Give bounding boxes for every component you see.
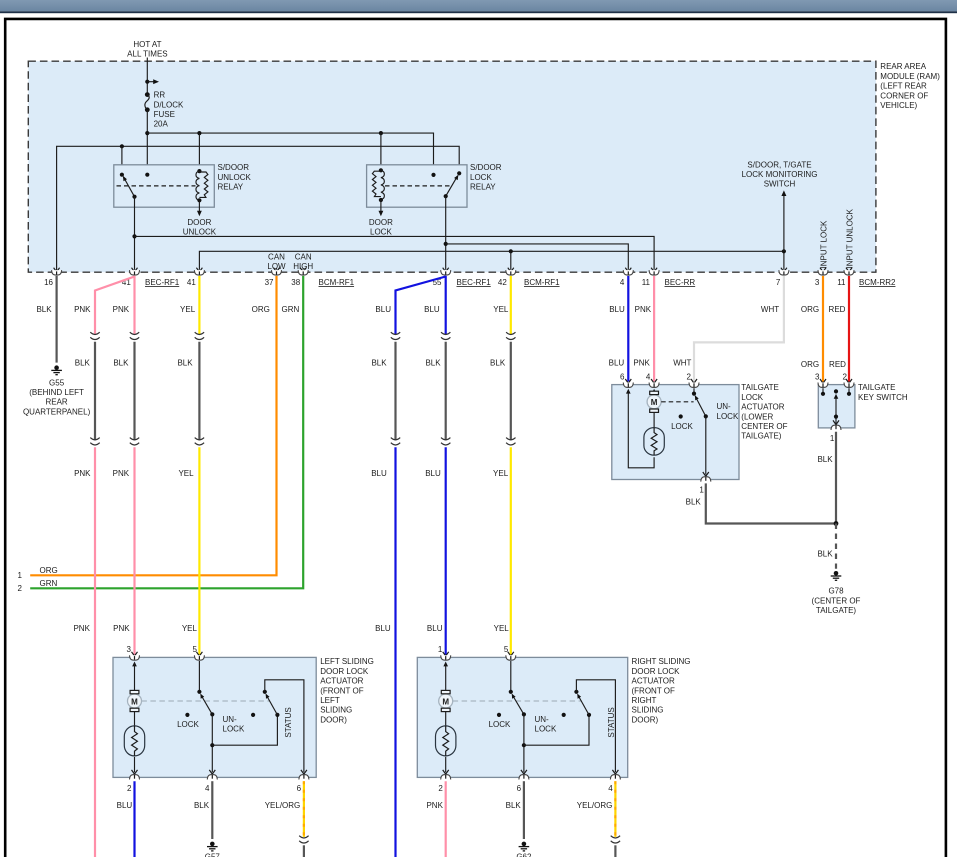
svg-text:41: 41 (187, 278, 196, 287)
wire: motor to sensor oval (653, 412, 655, 428)
svg-text:YEL: YEL (180, 305, 196, 314)
svg-text:G78: G78 (828, 587, 844, 596)
svg-text:2: 2 (438, 784, 443, 793)
pin number labels on connector row (44, 278, 846, 287)
right actuator top pin cups (441, 655, 516, 660)
svg-text:4: 4 (620, 278, 625, 287)
wire: PNK left long run to page bottom (94, 447, 96, 857)
svg-text:HIGH: HIGH (293, 262, 313, 271)
wire: BLK below left inline connector (303, 845, 305, 857)
svg-text:LOCK: LOCK (741, 393, 763, 402)
header bar (0, 0, 957, 13)
key switch pin labels 3 2 (815, 373, 848, 382)
ground G62 (519, 842, 530, 851)
svg-text:SLIDING: SLIDING (632, 706, 664, 715)
inline connector on right YEL/ORG (611, 836, 620, 843)
svg-text:3: 3 (815, 278, 820, 287)
key switch pin cups (818, 383, 854, 388)
motor M right actuator (439, 690, 453, 711)
fuse RR D/LOCK FUSE 20A (145, 91, 184, 129)
left actuator top pin cups (130, 655, 205, 660)
label: REAR AREA MODULE (RAM) (LEFT REAR CORNER OF VEHICLE) (880, 62, 940, 110)
svg-text:(CENTER OF: (CENTER OF (812, 596, 861, 605)
svg-text:WHT: WHT (761, 305, 779, 314)
left sliding door lock actuator box (113, 657, 316, 777)
svg-text:4: 4 (205, 784, 210, 793)
wire: YEL/ORG from left pin 6 (303, 781, 305, 837)
inline connector on left YEL/ORG (299, 836, 308, 843)
wire: BLU to right actuator pin 1 (445, 447, 447, 655)
svg-text:37: 37 (265, 278, 274, 287)
bottom wire color labels (right actuator) (426, 801, 612, 810)
connector name labels (145, 278, 896, 287)
relay U1 coil with parallel resistor (196, 169, 208, 202)
node: right STATUS pivot (574, 690, 578, 694)
svg-text:INPUT UNLOCK: INPUT UNLOCK (845, 208, 854, 268)
wire: right sensor to pin 2 (443, 757, 449, 774)
label: G55 (BEHIND LEFT REAR QUARTERPANEL) (23, 378, 91, 416)
wire: YEL to right actuator pin 5 (510, 447, 512, 655)
right sliding door lock actuator box (417, 657, 627, 777)
wire: tailgate switch output to pin 1 (703, 416, 709, 476)
svg-text:2: 2 (687, 373, 692, 382)
wire: tailgate BLK to junction (706, 483, 836, 523)
wire: tailgate pin 6 internal to sensor resistor (626, 389, 654, 468)
label: CAN LOW (267, 252, 286, 271)
svg-text:BLK: BLK (686, 497, 702, 506)
arrows into right actuator top pins (443, 652, 514, 656)
label: S/DOOR, T/GATE LOCK MONITORING SWITCH (742, 160, 818, 188)
arrows into tailgate pins (625, 379, 697, 383)
wire: INPUT LOCK stub (820, 268, 826, 272)
label: DOOR LOCK (369, 218, 393, 237)
tailgate pin cups (623, 383, 699, 388)
connector cups on RAM bottom edge (52, 270, 854, 275)
node: monitoring switch branch (782, 249, 786, 253)
wire: RED pin 11 run to key switch (848, 276, 850, 382)
svg-text:ACTUATOR: ACTUATOR (741, 403, 784, 412)
wire stubs through connector cups (57, 271, 849, 778)
wire: PNK pin 41 diagonal branch to left run (95, 277, 135, 335)
wire: ORG pin 37 CAN LOW run to left edge (30, 276, 276, 575)
node: right LOCK contact (497, 713, 501, 717)
wire: left actuator pin 3 internal to motor (132, 662, 137, 691)
right actuator bottom pin labels 2 6 4 (438, 784, 613, 793)
wire color labels at actuator pins (73, 624, 509, 633)
motor M left actuator (128, 690, 142, 711)
wire: PNK pin 41 straight run (133, 276, 135, 335)
label: G78 (CENTER OF TAILGATE) (812, 587, 861, 615)
svg-text:LOW: LOW (267, 262, 286, 271)
svg-text:BLU: BLU (371, 469, 387, 478)
node: left STATUS pivot (263, 690, 267, 694)
svg-text:ORG: ORG (801, 360, 819, 369)
svg-text:1: 1 (438, 645, 443, 654)
svg-text:LOCK: LOCK (717, 412, 739, 421)
svg-text:DOOR): DOOR) (320, 715, 347, 724)
svg-text:UNLOCK: UNLOCK (218, 173, 252, 182)
svg-text:UN-: UN- (535, 715, 550, 724)
right lock/unlock switch arm (512, 694, 526, 717)
svg-text:CAN: CAN (268, 252, 285, 261)
wire: pin 41 YEL net across to pin 7 (199, 251, 784, 269)
svg-text:CAN: CAN (295, 252, 312, 261)
svg-text:BLK: BLK (75, 358, 91, 367)
svg-text:CENTER OF: CENTER OF (741, 422, 787, 431)
motor M tailgate (647, 391, 661, 412)
relay U2 mechanical dashed link (385, 185, 452, 187)
wire: relay U2 output across to pin 4 (446, 244, 629, 270)
svg-text:BLK: BLK (817, 549, 833, 558)
svg-text:1: 1 (18, 571, 23, 580)
svg-text:ACTUATOR: ACTUATOR (320, 677, 363, 686)
svg-text:PNK: PNK (113, 624, 130, 633)
svg-text:BEC-RR: BEC-RR (665, 278, 696, 287)
svg-text:ORG: ORG (252, 305, 270, 314)
svg-text:BLK: BLK (194, 801, 210, 810)
svg-text:YEL: YEL (182, 624, 198, 633)
svg-text:HOT AT: HOT AT (133, 40, 161, 49)
svg-text:VEHICLE): VEHICLE) (880, 101, 917, 110)
node: relay U2 coil tap (379, 131, 383, 135)
node: left LOCK contact (185, 713, 189, 717)
wire: CAN LOW stub (274, 268, 280, 272)
wire: BLK from right pin 6 to ground G62 (523, 781, 525, 839)
wire: relay U1 output across to pin 11 (135, 236, 655, 269)
wire: relay U2 coil to DOOR LOCK arrow (380, 200, 382, 212)
svg-text:20A: 20A (154, 120, 169, 129)
svg-text:BLU: BLU (609, 305, 625, 314)
wire: BLK mid segments (95, 342, 511, 440)
tailgate mechanical dashed link (661, 401, 693, 403)
right STATUS switch arm (577, 694, 589, 715)
svg-text:S/DOOR: S/DOOR (218, 163, 250, 172)
node: relay U1 pivot tap (120, 144, 124, 148)
svg-text:REAR AREA: REAR AREA (880, 62, 926, 71)
svg-text:YEL: YEL (178, 469, 194, 478)
wire: INPUT UNLOCK stub (846, 268, 852, 272)
svg-text:11: 11 (642, 278, 651, 287)
wire: relay U1 output down to pin 41 (134, 197, 136, 270)
svg-text:MODULE (RAM): MODULE (RAM) (880, 72, 940, 81)
svg-text:CORNER OF: CORNER OF (880, 91, 928, 100)
wire: right actuator pin 5 internal to switch pivot (510, 661, 512, 692)
svg-text:7: 7 (776, 278, 781, 287)
right actuator mechanical dashed link (453, 700, 582, 702)
svg-text:6: 6 (297, 784, 302, 793)
label: DOOR UNLOCK (183, 218, 217, 237)
relay U1 contacts (120, 173, 124, 177)
svg-text:BLK: BLK (425, 358, 441, 367)
wire: dashed BLK to ground G78 (835, 524, 837, 569)
svg-text:BLU: BLU (427, 624, 443, 633)
left actuator top pin labels 3 5 (127, 645, 198, 654)
key switch pin 1 cup (bottom) (831, 425, 841, 430)
svg-text:GRN: GRN (282, 305, 300, 314)
svg-text:DOOR LOCK: DOOR LOCK (632, 667, 681, 676)
svg-text:PNK: PNK (113, 469, 130, 478)
node: relay U2 output branch (444, 242, 448, 246)
relay U1 mechanical dashed link (117, 185, 196, 187)
node: left status arm end (275, 713, 279, 717)
wire: motor to sensor oval (left) (134, 711, 136, 726)
tailgate switch arm (695, 395, 708, 418)
svg-text:LEFT SLIDING: LEFT SLIDING (320, 657, 374, 666)
svg-text:UNLOCK: UNLOCK (183, 228, 217, 237)
label: TAILGATE LOCK ACTUATOR (LOWER CENTER OF TAILGATE) (741, 383, 787, 441)
left actuator mechanical dashed link (141, 700, 269, 702)
resistor: right position sensor oval (436, 726, 456, 756)
relay U1 switch arm (123, 177, 134, 197)
svg-text:BLU: BLU (375, 624, 391, 633)
svg-text:RIGHT SLIDING: RIGHT SLIDING (632, 657, 691, 666)
wire: right switch output to pin 6 (521, 714, 527, 774)
svg-text:BLK: BLK (113, 358, 129, 367)
left lock/unlock switch arm (200, 694, 214, 717)
svg-text:G55: G55 (49, 378, 65, 387)
svg-text:DOOR: DOOR (187, 218, 211, 227)
wire: BLU long run to page bottom (394, 447, 396, 857)
svg-text:BLK: BLK (177, 358, 193, 367)
label: pin 1 BLK (key switch) (817, 434, 834, 464)
label: S/DOOR LOCK RELAY (470, 163, 502, 191)
svg-text:GRN: GRN (40, 579, 58, 588)
left STATUS switch arm (266, 694, 278, 715)
svg-text:BEC-RF1: BEC-RF1 (457, 278, 492, 287)
wire: YEL pin 42 run (510, 276, 512, 335)
node: pin 42 tap on monitoring net (509, 249, 513, 253)
svg-text:YEL: YEL (494, 624, 510, 633)
label: HOT AT ALL TIMES (127, 40, 167, 59)
wire: right status branch to status arm (524, 715, 589, 745)
svg-text:BLU: BLU (425, 469, 441, 478)
svg-text:(LOWER: (LOWER (741, 412, 773, 421)
svg-text:RED: RED (829, 360, 846, 369)
tailgate key switch box (818, 385, 855, 428)
wire: YEL to left actuator pin 5 (198, 447, 200, 655)
svg-text:BLU: BLU (375, 305, 391, 314)
connector row arrows into RAM pins (54, 268, 787, 272)
svg-text:BCM-RR2: BCM-RR2 (859, 278, 896, 287)
arrows into key switch pins (820, 379, 852, 383)
svg-text:RIGHT: RIGHT (632, 696, 657, 705)
svg-text:S/DOOR, T/GATE: S/DOOR, T/GATE (747, 160, 811, 169)
label: CAN HIGH (293, 252, 313, 271)
svg-text:11: 11 (837, 278, 846, 287)
svg-text:6: 6 (620, 373, 625, 382)
svg-text:PNK: PNK (74, 305, 91, 314)
wire: relay U2 coil feed (380, 133, 382, 170)
wire: arrow up to S/DOOR T/GATE LOCK MONITORING SWITCH (783, 194, 785, 251)
svg-text:YEL: YEL (493, 305, 509, 314)
svg-text:BLK: BLK (506, 801, 522, 810)
svg-text:LOCK: LOCK (671, 422, 693, 431)
wire color labels row below connector (36, 305, 845, 314)
tailgate pin 1 cup (bottom) (701, 477, 711, 482)
svg-text:LOCK: LOCK (535, 725, 557, 734)
wire: left actuator pin 5 internal to switch pivot (198, 661, 200, 692)
bottom wire color labels (left actuator) (117, 801, 301, 810)
svg-text:FUSE: FUSE (154, 110, 175, 119)
svg-text:RED: RED (829, 305, 846, 314)
svg-text:YEL/ORG: YEL/ORG (265, 801, 301, 810)
wire: BLU pin 4 run to tailgate actuator (627, 276, 629, 382)
wire: tap down to pin 42 (510, 251, 512, 269)
svg-text:BCM-RF1: BCM-RF1 (319, 278, 355, 287)
svg-text:TAILGATE): TAILGATE) (741, 432, 781, 441)
wire: battery feed into RAM box (146, 58, 148, 95)
node: right STATUS open contact (562, 713, 566, 717)
relay U1 S/DOOR UNLOCK RELAY box (114, 165, 215, 207)
wire: YEL/ORG from right pin 4 (614, 781, 616, 837)
wire: BLU from left pin 2 to page bottom (133, 781, 135, 857)
node: feed branch junction (145, 80, 149, 84)
svg-text:SWITCH: SWITCH (764, 180, 796, 189)
svg-text:PNK: PNK (426, 801, 443, 810)
arrows into left actuator top pins (132, 652, 203, 656)
svg-text:38: 38 (291, 278, 300, 287)
wire: left status branch to status arm (212, 715, 277, 745)
relay U2 switch arm (446, 176, 458, 197)
svg-text:INPUT LOCK: INPUT LOCK (819, 220, 828, 269)
label: S/DOOR UNLOCK RELAY (218, 163, 252, 191)
svg-text:PNK: PNK (635, 305, 652, 314)
svg-text:LOCK: LOCK (470, 173, 492, 182)
svg-text:TAILGATE): TAILGATE) (816, 606, 856, 615)
svg-text:BLU: BLU (424, 305, 440, 314)
BLK labels mid row (75, 358, 846, 369)
svg-text:BLK: BLK (490, 358, 506, 367)
wire: relay U1 pivot feed (121, 146, 123, 174)
svg-text:BLU: BLU (609, 358, 625, 367)
svg-text:3: 3 (815, 373, 820, 382)
node: left STATUS open contact (251, 713, 255, 717)
svg-text:TAILGATE: TAILGATE (858, 383, 896, 392)
wire: PNK pin 11 run to tailgate actuator (653, 276, 655, 382)
relay U2 contacts (431, 173, 435, 177)
svg-text:TAILGATE: TAILGATE (741, 383, 779, 392)
svg-text:PNK: PNK (633, 358, 650, 367)
label: 2 GRN at left edge (18, 579, 58, 593)
wire: BLU pin 55 straight run (445, 276, 447, 335)
wire: tailgate pin 2 stub to switch contact (693, 388, 695, 393)
svg-text:LOCK: LOCK (370, 228, 392, 237)
svg-text:LOCK: LOCK (489, 720, 511, 729)
wire: BLU pin 55 diagonal branch to left run (396, 277, 446, 335)
tailgate lock actuator box (612, 385, 739, 480)
wire color labels above actuators (74, 469, 509, 478)
svg-text:QUARTERPANEL): QUARTERPANEL) (23, 407, 91, 416)
label: UN-LOCK (right actuator) (535, 715, 557, 734)
svg-text:ORG: ORG (40, 566, 58, 575)
wire: left STATUS feed to pin 6 (265, 680, 307, 774)
svg-text:(LEFT REAR: (LEFT REAR (880, 82, 927, 91)
wire: BLK below right inline connector (614, 845, 616, 857)
wire: PNK to left actuator pin 3 (133, 447, 135, 655)
node: right lock/unlock switch pivot (509, 690, 513, 694)
node: right status branch (522, 743, 526, 747)
svg-text:2: 2 (127, 784, 132, 793)
svg-text:BEC-RF1: BEC-RF1 (145, 278, 180, 287)
svg-text:WHT: WHT (673, 358, 691, 367)
svg-text:PNK: PNK (74, 469, 91, 478)
svg-text:S/DOOR: S/DOOR (470, 163, 502, 172)
relay U2 coil with parallel resistor (372, 168, 384, 202)
ground G78 (831, 571, 842, 580)
svg-text:3: 3 (127, 645, 132, 654)
svg-text:RR: RR (154, 91, 166, 100)
svg-text:(FRONT OF: (FRONT OF (320, 686, 364, 695)
svg-text:LOCK: LOCK (177, 720, 199, 729)
wire: ground net from pin 16 to relay switch commons (57, 146, 460, 271)
inline connectors upper row (90, 332, 515, 339)
node: left lock/unlock switch pivot (197, 690, 201, 694)
left actuator bottom pin cups (130, 775, 309, 780)
svg-text:1: 1 (830, 434, 835, 443)
node: BLK ground junction (834, 521, 839, 526)
svg-text:UN-: UN- (223, 715, 238, 724)
wire: BLK from pin 16 to ground G55 (55, 276, 57, 363)
label: UN-LOCK (left actuator) (223, 715, 245, 734)
svg-text:LOCK: LOCK (223, 725, 245, 734)
wire: BLK from left pin 4 to ground G57 (211, 781, 213, 839)
svg-text:BLK: BLK (371, 358, 387, 367)
svg-text:4: 4 (646, 373, 651, 382)
svg-text:16: 16 (44, 278, 53, 287)
svg-text:LOCK MONITORING: LOCK MONITORING (742, 170, 818, 179)
wire: motor to sensor oval (right) (445, 711, 447, 726)
node: relay U1 coil tap (197, 131, 201, 135)
label: TAILGATE KEY SWITCH (858, 383, 908, 402)
label: LEFT SLIDING DOOR LOCK ACTUATOR (FRONT OF LEFT SLIDING DOOR) (320, 657, 374, 724)
svg-text:DOOR LOCK: DOOR LOCK (320, 667, 369, 676)
label: pin 1 BLK (tailgate) (686, 486, 705, 507)
relay U2 S/DOOR LOCK RELAY box (367, 165, 467, 207)
node: left status branch (210, 743, 214, 747)
svg-text:BLU: BLU (117, 801, 133, 810)
wire: YEL pin 41 run (198, 276, 200, 335)
svg-text:ALL TIMES: ALL TIMES (127, 50, 167, 59)
svg-text:UN-: UN- (717, 402, 732, 411)
resistor: tailgate position sensor oval (644, 428, 664, 456)
svg-text:G62: G62 (516, 853, 532, 857)
node: right status arm end (587, 713, 591, 717)
wire: ORG pin 3 run to key switch (822, 276, 824, 382)
wire: GRN pin 38 CAN HIGH run to left edge (30, 276, 303, 588)
wire: WHT pin 7 run to tailgate actuator pin 2 (694, 276, 784, 382)
node: tailgate LOCK contact (679, 414, 683, 418)
REAR AREA MODULE dashed box (28, 61, 876, 272)
svg-text:DOOR): DOOR) (632, 715, 659, 724)
svg-text:KEY SWITCH: KEY SWITCH (858, 393, 908, 402)
svg-text:(BEHIND LEFT: (BEHIND LEFT (29, 388, 84, 397)
svg-text:STATUS: STATUS (284, 707, 293, 737)
wire: key switch BLK down to junction (835, 432, 837, 524)
svg-text:PNK: PNK (113, 305, 130, 314)
wire: fuse output down to relay U1 fixed contact (146, 110, 148, 175)
svg-text:YEL/ORG: YEL/ORG (577, 801, 613, 810)
wire: right actuator pin 1 internal to motor (443, 662, 448, 691)
svg-text:D/LOCK: D/LOCK (154, 100, 184, 109)
label: RIGHT SLIDING DOOR LOCK ACTUATOR (FRONT OF RIGHT SLIDING DOOR) (632, 657, 691, 724)
svg-text:REAR: REAR (45, 398, 67, 407)
wire: relay U1 coil to DOOR UNLOCK arrow (198, 200, 200, 212)
svg-text:(FRONT OF: (FRONT OF (632, 686, 676, 695)
node: hot bus junction at fuse column (145, 131, 149, 135)
wire: left sensor to pin 2 (132, 757, 138, 774)
right actuator bottom pin cups (441, 775, 621, 780)
key switch contacts and wiper (821, 388, 851, 427)
